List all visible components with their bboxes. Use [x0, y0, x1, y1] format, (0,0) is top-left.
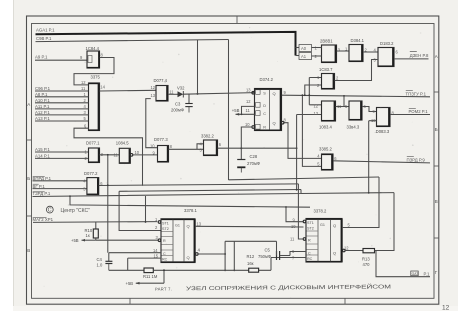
svg-text:A15 P.1: A15 P.1	[35, 147, 50, 152]
junction C9B/V32	[197, 93, 199, 95]
svg-text:12: 12	[442, 305, 450, 311]
svg-text:A12 P.1: A12 P.1	[35, 110, 50, 115]
svg-text:A: A	[435, 54, 438, 59]
wire C9B drop to V32 net	[197, 40, 199, 94]
gate U10 body	[322, 45, 337, 63]
svg-text:Центр "СКС": Центр "СКС"	[61, 208, 91, 214]
wire AGA1 bus (thick)	[36, 32, 296, 56]
U9 S bubble	[252, 92, 255, 95]
counter U19 body	[306, 219, 342, 263]
svg-text:P.8: P.8	[423, 53, 430, 58]
svg-text:A: A	[27, 102, 30, 107]
svg-text:11: 11	[81, 86, 86, 91]
wire AGA1 drop to A1	[296, 55, 300, 57]
svg-text:Q: Q	[333, 223, 336, 228]
node GAT P.1 output label	[411, 271, 430, 276]
caption PART 7	[155, 282, 392, 292]
wire RC net to U19 pin7	[259, 258, 306, 271]
svg-text:C: C	[163, 252, 166, 256]
svg-text:D183.2: D183.2	[380, 41, 394, 46]
svg-text:C96 P.1: C96 P.1	[35, 86, 51, 91]
svg-text:10: 10	[245, 122, 250, 127]
svg-text:12: 12	[151, 85, 156, 90]
wire A8 to U2 pin 1	[35, 96, 89, 98]
svg-text:200мФ: 200мФ	[171, 108, 184, 113]
svg-text:2В8В1: 2В8В1	[320, 39, 333, 44]
svg-text:ST2: ST2	[307, 227, 314, 231]
svg-text:270мФ: 270мФ	[247, 161, 260, 166]
wire U18 pin13 out	[196, 225, 304, 228]
wire R10 to R pin of D378.1	[96, 239, 158, 241]
wire U5 out to U7 pin 9	[133, 154, 158, 156]
svg-text:10: 10	[135, 150, 140, 155]
node DZEN P.8 output label	[410, 52, 429, 58]
svg-text:C3: C3	[175, 102, 181, 107]
gate U17 body	[322, 154, 334, 170]
wire L2 end feed to U19 R	[298, 184, 303, 239]
svg-text:C: C	[48, 208, 52, 214]
svg-text:МАГ2 ХР1: МАГ2 ХР1	[33, 217, 54, 222]
junction TZRD drop on MAG2 wire	[145, 196, 147, 222]
svg-text:1.0: 1.0	[97, 262, 103, 267]
svg-text:12: 12	[246, 99, 251, 104]
svg-text:Б: Б	[435, 127, 438, 132]
svg-text:11: 11	[114, 153, 119, 158]
wire MAG2 to D378.1 ST1	[33, 221, 157, 224]
op IC U1 body	[87, 51, 100, 68]
svg-text:A11 P.1: A11 P.1	[35, 104, 50, 109]
svg-text:RC: RC	[162, 257, 168, 261]
svg-text:3378.2: 3378.2	[314, 209, 327, 214]
wire rung above bottom rail	[225, 241, 276, 270]
capacitor C4	[105, 253, 112, 271]
wire U18 pin4 out	[198, 253, 225, 255]
svg-text:C5: C5	[265, 247, 271, 252]
wire U9 Q output long run to TPZGU	[282, 95, 430, 97]
wire U3 pin13 net down to U7 pin 10	[146, 99, 158, 148]
wire AGA1 drop to A0	[296, 47, 300, 49]
bus tap A1 box	[299, 53, 312, 60]
wire L3 from x119 to 301	[119, 190, 301, 192]
svg-text:C9B P.1: C9B P.1	[36, 36, 52, 41]
pin 10 of U5 output bubble	[130, 154, 133, 157]
svg-text:3385.2: 3385.2	[319, 147, 332, 152]
svg-text:В: В	[435, 199, 438, 204]
svg-text:В: В	[27, 248, 30, 253]
gate U11 body	[349, 45, 363, 62]
resistor R12 body	[249, 268, 259, 272]
wire diode to FF pin 13	[183, 93, 254, 95]
svg-text:3378.1: 3378.1	[184, 208, 197, 213]
wire R13 right up to TZRD net	[375, 193, 395, 251]
counter U18 body	[161, 219, 195, 263]
wire A12 to U2 pin 3	[35, 114, 89, 116]
wire B1 horizontal	[229, 177, 380, 180]
svg-text:C: C	[308, 252, 311, 256]
svg-text:R11 1М: R11 1М	[143, 274, 158, 279]
svg-text:G1: G1	[320, 223, 325, 227]
wire A15 to U4 pin 1	[35, 151, 89, 153]
wire A10 to U2 pin 2	[35, 102, 89, 104]
svg-text:11: 11	[290, 236, 295, 241]
scan speckle (decorative)	[43, 27, 421, 299]
svg-text:3375: 3375	[91, 74, 101, 79]
gate U13 body	[322, 101, 336, 121]
svg-text:1к: 1к	[86, 233, 90, 238]
wire A9 to U1 pin 9	[35, 59, 87, 61]
svg-text:10: 10	[150, 143, 155, 148]
wire C9B bus	[36, 40, 229, 42]
wire U2 pin 14 output to U3 pin 12	[100, 89, 157, 92]
wire U10 out to U11 pin1	[337, 50, 350, 52]
wire TZRD long run right	[33, 190, 395, 197]
gate U15 body	[349, 101, 362, 120]
gate U6 body	[87, 178, 99, 195]
svg-text:ST1: ST1	[307, 221, 314, 225]
wire C pin net	[109, 252, 161, 254]
gate U4 body	[89, 148, 100, 163]
svg-text:1084.5: 1084.5	[116, 141, 129, 146]
gate U3 body	[156, 86, 168, 102]
decoder U2 body	[89, 83, 100, 131]
svg-text:D077.1: D077.1	[86, 141, 100, 146]
svg-text:Q: Q	[187, 255, 190, 260]
wire Q drop to U17 pin 5	[302, 95, 321, 166]
wire A13 to U2 pin 5	[35, 120, 89, 122]
svg-text:D384.1: D384.1	[351, 38, 365, 43]
bottom RC rail	[109, 269, 144, 271]
svg-text:V32: V32	[177, 86, 185, 91]
svg-text:13: 13	[151, 93, 156, 98]
wire C96 to U2 pin 11	[35, 90, 89, 92]
svg-text:ДЗЕН: ДЗЕН	[410, 53, 421, 58]
U19 ST1 bubble	[303, 220, 306, 223]
svg-text:A0: A0	[301, 46, 307, 51]
wire U8 output to right	[218, 147, 297, 149]
svg-text:C4: C4	[97, 257, 103, 262]
svg-text:13: 13	[197, 221, 202, 226]
svg-text:C: C	[263, 112, 266, 116]
svg-text:РОМ2 P.1: РОМ2 P.1	[409, 109, 429, 114]
wire W205 branch from TZRD to U19 ST1	[70, 196, 310, 207]
svg-text:+5В: +5В	[126, 281, 134, 286]
diode V32	[178, 91, 184, 98]
svg-text:A8 P.1: A8 P.1	[35, 92, 48, 97]
svg-text:A1: A1	[301, 54, 307, 59]
gate U16 body	[377, 108, 391, 127]
svg-text:1C84.4: 1C84.4	[86, 46, 100, 51]
U19 R bubble	[303, 238, 306, 241]
wire U13 pin 13 feed from below	[297, 115, 322, 190]
svg-text:ВПРД P.1: ВПРД P.1	[33, 176, 52, 181]
wire v119 down to ST2 wire	[119, 191, 161, 230]
svg-text:10: 10	[291, 224, 296, 229]
capacitor C3 plates	[185, 104, 192, 113]
svg-text:A9 P.1: A9 P.1	[35, 55, 48, 60]
svg-text:R12: R12	[247, 254, 255, 259]
junction v1 at U6 out	[107, 184, 109, 186]
wire U2 pin 6 loop down	[74, 128, 143, 186]
wire Q up to U12 pin 1 and down to U13 pin 12	[309, 78, 321, 105]
svg-text:+5В: +5В	[71, 238, 79, 243]
svg-text:16к: 16к	[247, 261, 254, 266]
svg-text:ST2: ST2	[162, 227, 169, 231]
wire drop to C5 left plate	[276, 241, 278, 255]
capacitor C5 plates	[277, 251, 291, 260]
wire RC pin net	[128, 258, 161, 270]
wire VG to U6 pin 5	[33, 188, 87, 190]
wire U15 out to U16 pin9	[362, 107, 377, 112]
svg-text:R: R	[163, 239, 166, 243]
svg-text:D: D	[263, 104, 266, 108]
svg-text:14: 14	[153, 248, 158, 253]
svg-text:AGA1 P.1: AGA1 P.1	[36, 28, 55, 33]
wire A0 to U10 pin1	[312, 47, 322, 49]
wire U13 out to U15 pin5	[336, 106, 350, 108]
junction at C28	[240, 147, 242, 149]
wire U3 output to diode	[168, 93, 178, 95]
wire branch to D pin	[242, 106, 255, 114]
svg-text:S: S	[263, 91, 266, 95]
capacitor C28 leads and plates	[237, 148, 245, 172]
svg-text:Q: Q	[273, 121, 276, 126]
svg-text:+5В: +5В	[232, 108, 240, 113]
wire U6 output long L2 run right	[99, 184, 299, 186]
wire U7 out to U8 pin 5	[169, 148, 204, 150]
svg-text:Q: Q	[333, 251, 336, 256]
gate U12 body	[322, 74, 335, 90]
svg-text:GАТ: GАТ	[412, 272, 419, 276]
svg-text:.D083.3: .D083.3	[375, 129, 390, 134]
svg-text:12: 12	[81, 80, 86, 85]
wire U1 output loop to U2 pin 12	[74, 58, 114, 85]
R bubble U18	[158, 239, 161, 242]
svg-text:3382.2: 3382.2	[201, 133, 214, 138]
wire U16 out to ROM2	[390, 114, 430, 116]
svg-text:12: 12	[314, 103, 319, 108]
wire stub U16 pin10	[369, 121, 377, 193]
wire A14 to U4 pin 2	[35, 157, 89, 159]
svg-text:1083.4: 1083.4	[319, 125, 332, 130]
capacitor C3 lead	[188, 94, 190, 103]
svg-text:ТПЗГУ P.1: ТПЗГУ P.1	[406, 91, 427, 96]
svg-text:11: 11	[246, 108, 251, 113]
wire branch to U8 pin 4	[197, 144, 204, 150]
svg-text:750мФ: 750мФ	[258, 254, 271, 259]
flipflop U9 body	[255, 89, 282, 131]
inverter U5 body	[119, 148, 130, 163]
pin4 bubble	[196, 253, 199, 256]
wire U19 pin12 to R13	[345, 250, 363, 252]
wire TPZGU tap	[343, 96, 345, 107]
wire A11 to U2 pin 4	[35, 108, 89, 110]
wire C9B corner down	[228, 40, 230, 181]
gate U14 body	[378, 48, 394, 67]
wire VPRD to U6 pin 4	[33, 180, 87, 182]
svg-text:15: 15	[154, 253, 159, 258]
svg-text:D077: D077	[154, 137, 165, 142]
svg-text:A10 P.1: A10 P.1	[35, 98, 50, 103]
wire U4 out to U5 pin 11	[100, 154, 120, 156]
svg-text:33в4.3: 33в4.3	[347, 125, 360, 130]
wire v1 drop from U6 output to C-pin wire	[107, 155, 109, 253]
resistor R13 body	[363, 249, 375, 253]
svg-text:R: R	[263, 125, 266, 129]
svg-text:1С83.7: 1С83.7	[319, 67, 333, 72]
svg-text:A13 P.1: A13 P.1	[35, 116, 50, 121]
junction v1 top	[107, 154, 109, 156]
wire Q branch to U12 pin 2	[305, 85, 322, 95]
wire U11 out to U14 pin4	[363, 51, 378, 53]
U9 R bubble	[252, 126, 255, 129]
svg-text:A14 P.1: A14 P.1	[35, 154, 50, 159]
wire +5V to C pin	[236, 113, 255, 115]
svg-text:P.1: P.1	[424, 271, 431, 276]
svg-text:D077.2: D077.2	[84, 171, 98, 176]
wire GAT branch	[376, 251, 430, 277]
svg-text:R: R	[308, 239, 311, 243]
svg-text:ПЗРД P.9: ПЗРД P.9	[407, 158, 426, 163]
gate U7 body	[158, 146, 169, 163]
svg-text:Q: Q	[273, 91, 276, 96]
wire U9 pin10 to C28 junction	[241, 127, 252, 148]
svg-text:ST1: ST1	[162, 221, 169, 225]
ST1 bubble	[158, 221, 161, 224]
gate U8 body	[204, 140, 218, 156]
wire C5 net to U19 C pin	[290, 252, 306, 256]
svg-text:R13: R13	[362, 256, 370, 261]
svg-text:Б: Б	[27, 176, 30, 181]
wire U14 out to DZEN label	[394, 58, 429, 60]
inner frame	[32, 24, 435, 299]
svg-text:ВГ P.1: ВГ P.1	[33, 184, 46, 189]
svg-text:G1: G1	[175, 224, 180, 228]
svg-text:D374.2: D374.2	[260, 77, 274, 82]
wire U12 out up to U14 pin5	[335, 60, 379, 81]
copyright mark	[46, 206, 53, 213]
wire R11 to R12	[153, 269, 248, 271]
U19 pin12 bubble	[343, 249, 346, 252]
bus tap A0 box	[299, 45, 312, 52]
resistor R10 body	[93, 222, 98, 240]
svg-text:PART 7.: PART 7.	[155, 286, 172, 291]
wire A1 to U10 pin2	[312, 55, 322, 57]
resistor R11 body	[144, 268, 153, 273]
wire U9 Qbar output to U17 pin 4	[284, 123, 322, 159]
svg-text:13: 13	[314, 111, 319, 116]
svg-text:13: 13	[246, 87, 251, 92]
svg-text:RC: RC	[307, 257, 313, 261]
svg-text:C28: C28	[250, 154, 258, 159]
svg-text:Q: Q	[187, 223, 190, 228]
zone tick marks	[27, 139, 32, 141]
wire U19 Q out to B1 riser	[343, 177, 379, 228]
svg-text:470: 470	[363, 262, 371, 267]
